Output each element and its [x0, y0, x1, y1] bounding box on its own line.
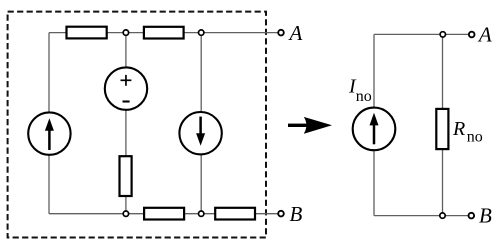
resistor bottom-left — [144, 208, 184, 220]
terminal A norton — [469, 32, 475, 38]
terminal A left circuit — [278, 30, 284, 36]
resistor R_no — [436, 109, 448, 149]
wire: left vertical branch — [48, 33, 50, 214]
wire: right vertical branch — [200, 33, 202, 214]
svg-text:A: A — [477, 22, 492, 46]
resistor bottom-right — [215, 208, 255, 220]
resistor middle vertical — [120, 156, 132, 196]
svg-text:A: A — [288, 21, 303, 45]
wire: norton resistor branch — [442, 34, 444, 215]
current source left (up arrow) — [28, 112, 70, 154]
node norton top — [440, 32, 445, 37]
wire: norton bottom rail — [374, 215, 469, 217]
node top-middle — [123, 30, 128, 35]
wire: middle vertical branch — [125, 33, 127, 214]
svg-text:no: no — [467, 129, 483, 146]
node top-right — [199, 30, 204, 35]
implication arrow — [288, 117, 332, 134]
wire: left circuit bottom rail — [49, 213, 278, 215]
node norton bottom — [440, 213, 445, 218]
wire: norton left branch — [373, 34, 375, 215]
current source I_no (up arrow) — [353, 108, 396, 151]
svg-text:B: B — [290, 202, 303, 226]
svg-text:R: R — [452, 118, 465, 140]
dashed enclosure box — [8, 12, 266, 238]
current source right (down arrow) — [179, 112, 221, 154]
terminal B norton — [469, 213, 475, 219]
wire: norton top rail — [374, 33, 469, 35]
svg-text:B: B — [479, 204, 492, 228]
wire: left circuit top rail — [49, 32, 278, 34]
node bottom-middle — [123, 211, 128, 216]
svg-text:no: no — [356, 88, 372, 105]
terminal B left circuit — [278, 211, 284, 217]
voltage source — [105, 67, 147, 109]
resistor top-right — [144, 27, 184, 39]
resistor top-left — [67, 27, 107, 39]
node bottom-right — [199, 211, 204, 216]
